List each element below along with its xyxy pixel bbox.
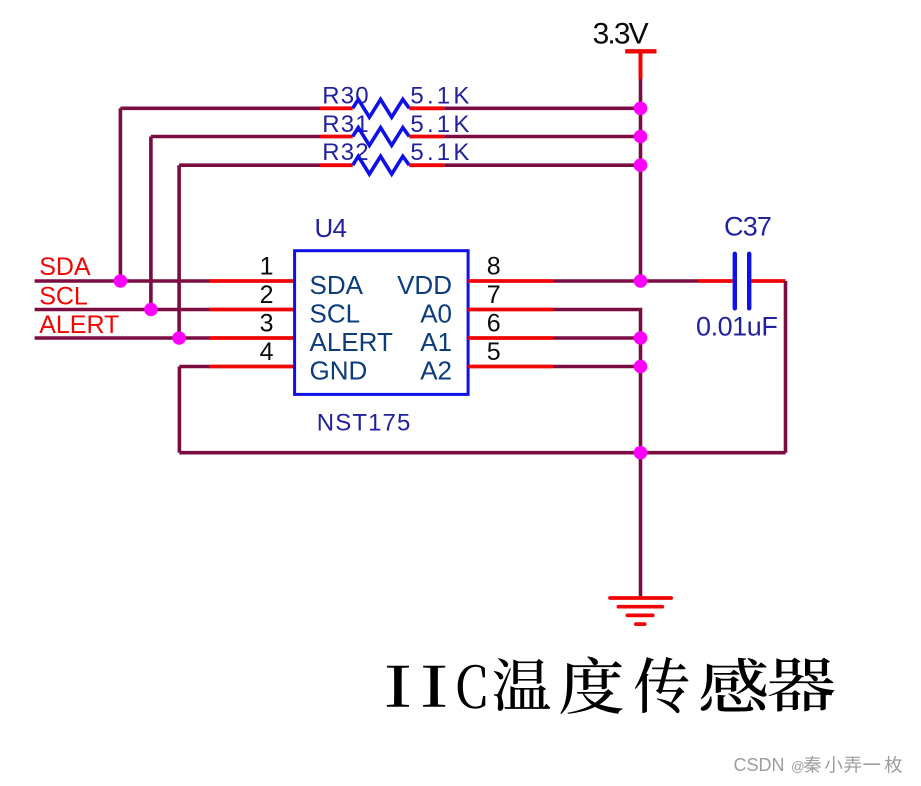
svg-text:NST175: NST175 (317, 410, 412, 437)
wire: pin4 maroon stub to corner (179, 365, 209, 369)
svg-text:7: 7 (487, 281, 501, 309)
svg-text:ALERT: ALERT (310, 327, 393, 357)
svg-text:8: 8 (487, 253, 501, 281)
pin wire red cap right (751, 279, 785, 283)
junction dot SDA (114, 274, 128, 288)
junction dot R31/rail (634, 130, 648, 144)
ground symbol bar 4 (636, 622, 645, 626)
pin wire red cap left (698, 279, 733, 283)
wire: A2 row maroon to vertical (553, 365, 641, 369)
svg-text:SCL: SCL (39, 283, 88, 311)
junction dot A1 (634, 331, 648, 345)
svg-text:@: @ (791, 759, 805, 774)
wire: GND left vertical x=179.4 (178, 367, 182, 453)
svg-text:5.1K: 5.1K (410, 83, 472, 110)
svg-text:6: 6 (487, 310, 501, 338)
capacitor C37 right plate (747, 254, 751, 308)
svg-text:5.1K: 5.1K (410, 111, 472, 138)
wire: R30 right maroon to rail (444, 107, 640, 111)
pin 4 wire red (GND) (209, 365, 295, 369)
wire: VDD row maroon to rail (553, 279, 641, 283)
resistor R31 zigzag (353, 128, 410, 146)
pin 3 wire red (ALERT) (209, 336, 295, 340)
wire: 3.3V stem down to rail (639, 79, 643, 108)
pin 8 wire red (VDD) (468, 279, 553, 283)
ground symbol bar 2 (618, 605, 662, 609)
pin 1 wire red (SDA) (209, 279, 295, 283)
svg-text:SCL: SCL (310, 298, 361, 328)
junction dot R32/rail (634, 158, 648, 172)
svg-text:U4: U4 (315, 213, 347, 243)
svg-text:SDA: SDA (310, 270, 364, 300)
svg-text:0.01uF: 0.01uF (696, 312, 777, 342)
pin 2 wire red (SCL) (209, 308, 295, 312)
wire: ground stem (639, 453, 643, 598)
junction dot SCL (144, 303, 158, 317)
resistor R32 zigzag (353, 156, 410, 174)
svg-text:3: 3 (260, 310, 274, 338)
pin wire red R30 left (320, 106, 353, 110)
pin wire red R32 left (320, 163, 353, 167)
pin wire red R32 right (409, 163, 444, 167)
junction dot A2 (634, 360, 648, 374)
power symbol 3.3V bar (625, 49, 656, 53)
pin wire red R30 right (409, 106, 444, 110)
wire: left vertical SDA riser x=120.4 (119, 108, 123, 281)
wire: ALERT horizontal (35, 336, 209, 340)
junction dot R30/rail (634, 102, 648, 116)
pin wire red R31 right (409, 135, 444, 139)
ground symbol bar 3 (627, 614, 652, 618)
junction dot bottom/ground (634, 446, 648, 460)
wire: R31 right maroon to rail (444, 135, 640, 139)
junction dot VDD/rail (634, 274, 648, 288)
IC U4 body (295, 251, 469, 395)
wire: bottom horizontal (179, 451, 785, 455)
svg-text:SDA: SDA (39, 253, 91, 281)
pin 6 wire red (A1) (468, 336, 553, 340)
wire: R32 left maroon (179, 163, 320, 167)
power symbol stem (red) (639, 51, 643, 79)
wire: left vertical ALERT riser x=179.1 (177, 165, 181, 338)
wire: SDA horizontal (35, 279, 209, 283)
pin wire red R31 left (320, 135, 353, 139)
title IIC温度传感器 (387, 657, 835, 714)
wire: A1 row maroon to vertical (553, 336, 641, 340)
pin 7 wire red (A0) (468, 308, 553, 312)
wire: R31 left maroon (151, 135, 320, 139)
svg-text:A2: A2 (420, 355, 452, 385)
svg-text:5.1K: 5.1K (410, 139, 472, 166)
svg-text:A1: A1 (420, 327, 452, 357)
wire: R32 right maroon to rail (444, 163, 640, 167)
wire: VDD row maroon rail to cap (641, 279, 699, 283)
junction dot ALERT (172, 331, 186, 345)
svg-text:4: 4 (260, 338, 274, 366)
svg-text:3.3V: 3.3V (593, 18, 649, 51)
wire: cap right corner down (784, 281, 788, 453)
wire: SCL horizontal (35, 308, 209, 312)
capacitor C37 left plate (733, 254, 737, 308)
ground symbol bar 1 (610, 596, 671, 600)
svg-text:1: 1 (260, 253, 274, 281)
pin 5 wire red (A2) (468, 365, 553, 369)
wire: left vertical SCL riser x=150.9 (149, 137, 153, 310)
svg-text:C37: C37 (724, 212, 771, 242)
svg-text:2: 2 (260, 281, 274, 309)
svg-text:CSDN: CSDN (734, 755, 785, 775)
wire: A0 row maroon then down (553, 310, 641, 453)
wire: R30 left maroon (120, 107, 320, 111)
svg-text:ALERT: ALERT (39, 311, 119, 339)
svg-text:A0: A0 (420, 298, 452, 328)
resistor R30 zigzag (353, 99, 410, 117)
svg-text:VDD: VDD (397, 270, 452, 300)
svg-text:5: 5 (487, 338, 501, 366)
wire: VDD rail vertical x=640 from R30 row to pin8 row (639, 108, 643, 281)
svg-text:GND: GND (310, 355, 368, 385)
